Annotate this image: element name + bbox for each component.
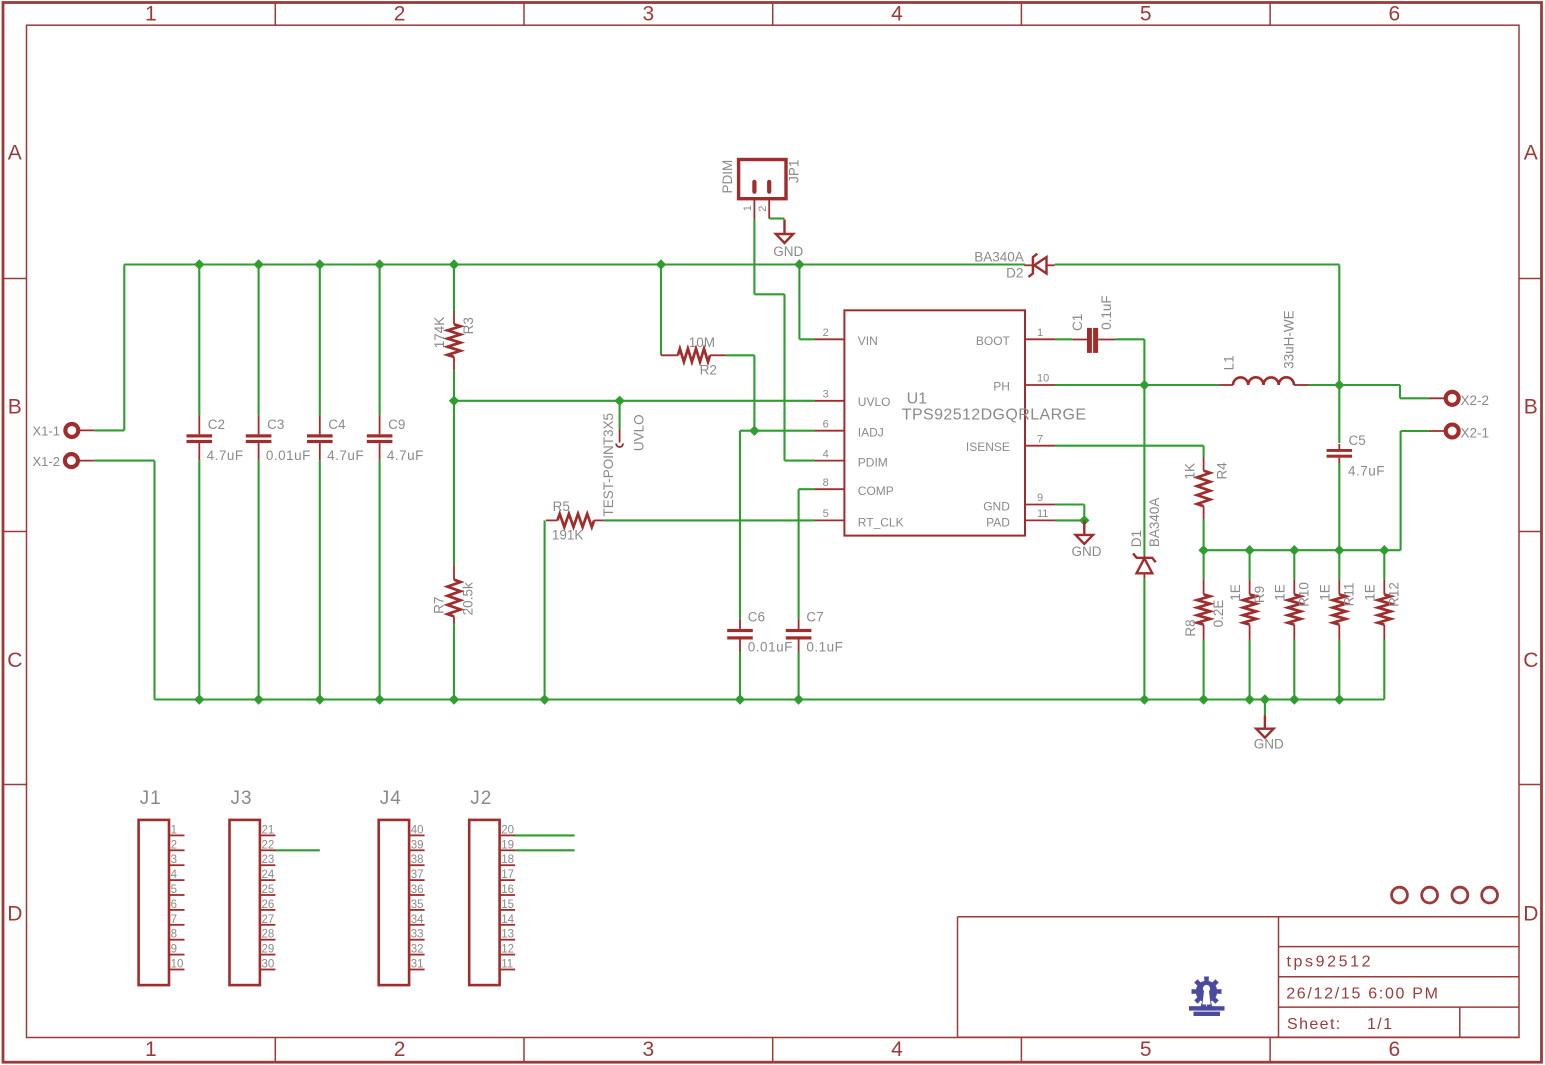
svg-text:X2-1: X2-1 [1461,426,1490,441]
svg-text:0.1uF: 0.1uF [806,640,843,655]
svg-text:L1: L1 [1221,355,1236,370]
svg-text:2: 2 [171,839,177,851]
svg-text:COMP: COMP [858,484,894,498]
svg-text:RT_CLK: RT_CLK [858,515,904,529]
svg-text:R10: R10 [1297,582,1312,607]
svg-text:1: 1 [145,3,157,26]
svg-text:D1: D1 [1129,530,1144,547]
svg-text:PDIM: PDIM [858,456,888,470]
svg-text:14: 14 [501,914,514,926]
svg-text:1K: 1K [1182,463,1197,480]
svg-text:R11: R11 [1342,583,1357,607]
svg-text:6: 6 [171,899,177,911]
svg-text:7: 7 [171,914,177,926]
svg-text:1E: 1E [1228,584,1243,601]
svg-text:13: 13 [501,929,514,941]
svg-text:X1-1: X1-1 [33,423,60,438]
svg-text:A: A [8,142,22,165]
svg-text:1E: 1E [1318,584,1333,601]
svg-text:3: 3 [642,3,654,26]
svg-text:7: 7 [1037,433,1043,445]
svg-text:1/1: 1/1 [1367,1016,1393,1033]
svg-text:33uH-WE: 33uH-WE [1281,310,1296,369]
svg-text:2: 2 [823,327,829,339]
svg-text:D2: D2 [1006,266,1023,281]
svg-text:23: 23 [262,854,275,866]
svg-text:22: 22 [262,839,275,851]
svg-text:11: 11 [1037,508,1048,520]
svg-text:UVLO: UVLO [858,395,891,409]
svg-text:9: 9 [1037,492,1043,504]
svg-text:1: 1 [1037,327,1043,339]
svg-text:JP1: JP1 [786,160,801,183]
svg-text:40: 40 [411,824,424,836]
svg-text:17: 17 [501,869,514,881]
svg-text:0.01uF: 0.01uF [266,448,311,463]
svg-text:4: 4 [891,3,903,26]
svg-text:26: 26 [262,899,275,911]
svg-text:J1: J1 [140,788,162,809]
svg-text:5: 5 [1140,1038,1152,1061]
svg-text:1E: 1E [1273,584,1288,601]
svg-text:GND: GND [983,499,1010,513]
svg-text:C9: C9 [388,417,405,432]
svg-text:X2-2: X2-2 [1461,393,1490,408]
svg-text:C: C [1523,649,1538,672]
svg-text:11: 11 [501,959,513,971]
svg-text:C5: C5 [1349,433,1366,448]
svg-text:5: 5 [823,508,829,520]
svg-text:3: 3 [823,389,829,401]
svg-text:C: C [7,649,22,672]
svg-text:30: 30 [262,959,275,971]
svg-text:3: 3 [171,854,177,866]
svg-text:15: 15 [501,899,514,911]
svg-text:B: B [1524,395,1538,418]
svg-text:8: 8 [171,929,177,941]
svg-text:R5: R5 [553,499,570,514]
svg-text:39: 39 [411,839,424,851]
svg-text:174K: 174K [432,317,447,349]
svg-text:4: 4 [891,1038,903,1061]
svg-text:9: 9 [171,944,177,956]
svg-text:4.7uF: 4.7uF [387,448,424,463]
svg-text:tps92512: tps92512 [1287,954,1374,971]
svg-text:20.5k: 20.5k [460,582,475,615]
svg-text:C4: C4 [328,417,346,432]
svg-text:35: 35 [411,899,424,911]
svg-text:36: 36 [411,884,424,896]
svg-text:29: 29 [262,944,275,956]
svg-text:C6: C6 [748,610,765,625]
svg-text:4: 4 [823,448,829,460]
svg-text:PDIM: PDIM [720,160,735,194]
svg-text:4.7uF: 4.7uF [207,448,244,463]
svg-text:21: 21 [262,824,275,836]
svg-text:BOOT: BOOT [976,334,1011,348]
svg-text:16: 16 [501,884,514,896]
svg-text:26/12/15 6:00 PM: 26/12/15 6:00 PM [1286,986,1440,1003]
svg-text:R12: R12 [1387,582,1402,607]
svg-text:D: D [7,903,22,926]
svg-text:R8: R8 [1183,619,1198,636]
svg-text:D: D [1523,903,1538,926]
svg-text:2: 2 [757,206,769,212]
svg-text:12: 12 [501,944,514,956]
svg-text:191K: 191K [552,528,584,543]
svg-text:R9: R9 [1252,586,1267,603]
svg-text:8: 8 [823,477,829,489]
svg-text:20: 20 [501,824,514,836]
svg-text:GND: GND [1072,544,1102,559]
svg-text:5: 5 [1140,3,1152,26]
svg-text:19: 19 [501,839,514,851]
svg-text:Sheet:: Sheet: [1287,1016,1342,1033]
svg-text:10: 10 [1037,373,1049,385]
svg-text:6: 6 [1389,3,1401,26]
svg-text:34: 34 [411,914,424,926]
svg-text:TPS92512DGQRLARGE: TPS92512DGQRLARGE [902,407,1087,424]
svg-text:25: 25 [262,884,275,896]
svg-text:BA340A: BA340A [974,249,1024,264]
svg-text:A: A [1524,142,1538,165]
svg-text:C7: C7 [806,610,823,625]
svg-text:B: B [8,395,22,418]
svg-text:R7: R7 [432,597,447,614]
svg-text:5: 5 [171,884,177,896]
svg-text:10: 10 [171,959,184,971]
svg-text:R2: R2 [700,362,717,377]
svg-text:38: 38 [411,854,424,866]
svg-text:C1: C1 [1070,314,1085,331]
svg-text:1E: 1E [1363,584,1378,601]
svg-text:PH: PH [993,380,1010,394]
svg-text:10M: 10M [689,335,715,350]
svg-text:28: 28 [262,929,275,941]
svg-text:IADJ: IADJ [858,426,884,440]
svg-text:2: 2 [394,3,406,26]
svg-text:3: 3 [642,1038,654,1061]
svg-text:31: 31 [411,959,424,971]
svg-text:R3: R3 [461,317,476,334]
svg-text:0.1uF: 0.1uF [1099,295,1114,330]
svg-text:24: 24 [262,869,275,881]
svg-text:J3: J3 [231,788,253,809]
svg-text:0.01uF: 0.01uF [748,640,793,655]
svg-text:BA340A: BA340A [1147,498,1162,548]
svg-text:27: 27 [262,914,275,926]
svg-text:33: 33 [411,929,424,941]
svg-text:2: 2 [394,1038,406,1061]
svg-text:1: 1 [742,205,754,211]
svg-text:32: 32 [411,944,424,956]
svg-text:J2: J2 [470,788,492,809]
svg-text:R4: R4 [1215,462,1230,480]
svg-text:6: 6 [1389,1038,1401,1061]
svg-text:C2: C2 [208,417,225,432]
svg-text:UVLO: UVLO [631,414,646,451]
svg-text:37: 37 [411,869,424,881]
svg-text:VIN: VIN [858,334,878,348]
svg-text:U1: U1 [907,391,928,408]
svg-text:C3: C3 [267,417,284,432]
svg-text:4.7uF: 4.7uF [327,448,364,463]
svg-text:4.7uF: 4.7uF [1348,464,1385,479]
svg-text:4: 4 [171,869,178,881]
svg-text:GND: GND [1254,737,1284,752]
svg-text:TEST-POINT3X5: TEST-POINT3X5 [601,413,616,517]
svg-text:ISENSE: ISENSE [966,440,1010,454]
svg-text:18: 18 [501,854,514,866]
svg-text:6: 6 [823,418,829,430]
svg-text:X1-2: X1-2 [33,454,60,469]
svg-text:PAD: PAD [986,515,1010,529]
svg-text:GND: GND [773,244,803,259]
svg-text:J4: J4 [380,788,402,809]
svg-text:1: 1 [171,824,177,836]
svg-text:1: 1 [145,1038,157,1061]
svg-text:0.2E: 0.2E [1211,600,1226,628]
